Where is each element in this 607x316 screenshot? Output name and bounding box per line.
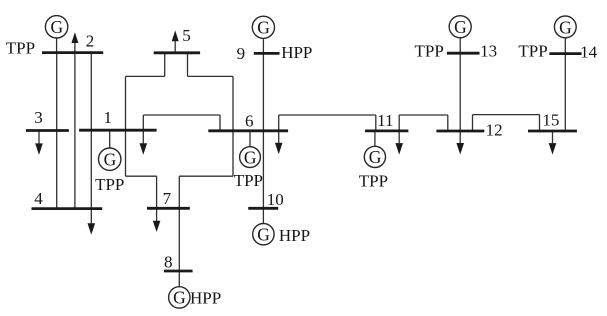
svg-text:G: G <box>244 147 257 167</box>
svg-text:15: 15 <box>542 111 559 130</box>
svg-text:7: 7 <box>163 189 172 208</box>
svg-text:12: 12 <box>486 121 503 140</box>
svg-text:6: 6 <box>245 112 254 131</box>
svg-text:TPP: TPP <box>234 171 263 190</box>
svg-text:G: G <box>257 225 270 245</box>
svg-text:11: 11 <box>377 111 393 130</box>
svg-text:G: G <box>50 17 63 37</box>
svg-text:TPP: TPP <box>95 175 124 194</box>
svg-text:G: G <box>559 17 572 37</box>
svg-text:G: G <box>173 288 186 308</box>
svg-text:HPP: HPP <box>279 226 310 245</box>
svg-text:3: 3 <box>34 108 43 127</box>
svg-text:TPP: TPP <box>6 38 35 57</box>
svg-text:2: 2 <box>86 32 95 51</box>
svg-text:10: 10 <box>267 190 284 209</box>
svg-text:8: 8 <box>164 253 173 272</box>
svg-text:HPP: HPP <box>190 289 221 308</box>
svg-text:G: G <box>257 18 270 38</box>
svg-text:5: 5 <box>182 26 191 45</box>
svg-text:G: G <box>454 17 467 37</box>
svg-text:1: 1 <box>104 108 113 127</box>
svg-text:4: 4 <box>34 189 43 208</box>
svg-text:G: G <box>369 147 382 167</box>
svg-text:13: 13 <box>480 42 497 61</box>
svg-text:HPP: HPP <box>281 43 312 62</box>
svg-text:G: G <box>104 150 117 170</box>
svg-text:TPP: TPP <box>359 172 388 191</box>
svg-text:14: 14 <box>580 43 598 62</box>
svg-text:TPP: TPP <box>415 41 444 60</box>
svg-text:9: 9 <box>237 44 246 63</box>
svg-text:TPP: TPP <box>518 42 547 61</box>
